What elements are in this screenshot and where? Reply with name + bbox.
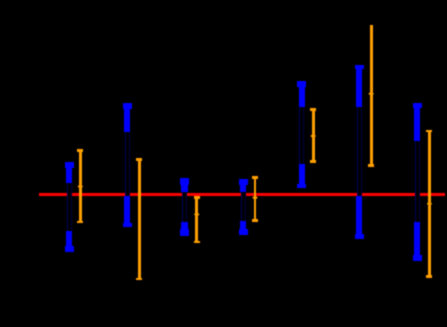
series-2 point 4: top cap [252, 176, 258, 179]
series-2 point 6: bottom cap [368, 164, 374, 167]
series-1 point 3: inner interval (black box, navy edges) [182, 192, 188, 222]
series-1 point 7: lower thick blue segment [414, 222, 420, 261]
series-2 point 5: center marker [310, 134, 316, 138]
series-2 point 6: center marker [368, 92, 374, 96]
series-2 point 1: orange error bar [79, 149, 82, 223]
series-2 point 1: top cap [77, 149, 83, 152]
series-2 point 3: orange error bar [195, 196, 198, 243]
series-1 point 4: inner interval (black box, navy edges) [241, 193, 247, 222]
series-1 point 6: upper thick blue segment [356, 65, 362, 107]
series-2 point 6: orange error bar [370, 25, 373, 167]
series-1 point 7: upper thick blue segment [414, 103, 420, 141]
series-1 point 5: inner interval (black box, navy edges) [299, 107, 305, 164]
series-2 point 5: top cap [310, 108, 316, 111]
series-1 point 2: bottom cap [123, 223, 132, 228]
series-1 point 5: lower thick blue segment [299, 164, 305, 188]
series-2 point 5: orange error bar [312, 108, 315, 163]
series-1 point 3: lower thick blue segment [181, 222, 187, 236]
series-2 point 5: bottom cap [310, 160, 316, 163]
series-1 point 6: bottom cap [355, 234, 364, 239]
series-2 point 4: bottom cap [252, 219, 258, 222]
series-1 point 3: upper thick blue segment [181, 178, 187, 191]
series-1 point 6: lower thick blue segment [356, 196, 362, 239]
series-2 point 7: center marker [427, 202, 433, 206]
series-1 point 1: inner interval (black box, navy edges) [67, 183, 73, 232]
series-2 point 7: orange error bar [428, 130, 431, 278]
series-1 point 4: top cap [239, 179, 248, 185]
series-1 point 5: upper thick blue segment [299, 81, 305, 107]
series-1 point 2: upper thick blue segment [124, 103, 130, 132]
series-1 point 1: bottom cap [65, 246, 74, 252]
series-1 point 2: lower thick blue segment [124, 196, 130, 227]
series-2 point 1: bottom cap [77, 221, 83, 224]
series-1 point 1: top cap [65, 162, 74, 168]
series-2 point 2: top cap [136, 158, 142, 161]
series-2 point 3: center marker [194, 212, 200, 216]
series-2 point 2: orange error bar [138, 158, 141, 280]
series-2 point 3: top cap [194, 196, 200, 199]
series-1 point 4: bottom cap [239, 229, 248, 235]
series-2 point 7: bottom cap [426, 275, 432, 278]
series-2 point 7: top cap [426, 130, 432, 133]
series-1 point 7: inner interval (black box, navy edges) [415, 141, 421, 222]
series-1 point 2: top cap [123, 103, 132, 109]
series-1 point 7: bottom cap [413, 255, 422, 261]
series-2 point 4: orange error bar [254, 176, 257, 222]
series-1 point 3: bottom cap [180, 229, 189, 235]
red baseline y=0 [39, 193, 445, 196]
series-1 point 6: top cap [355, 65, 364, 70]
series-1 point 4: upper thick blue segment [240, 179, 246, 193]
series-1 point 6: inner interval (black box, navy edges) [357, 107, 363, 196]
series-1 point 7: top cap [413, 103, 422, 108]
series-2 point 2: bottom cap [136, 278, 142, 281]
series-1 point 2: inner interval (black box, navy edges) [125, 132, 131, 196]
series-1 point 3: top cap [180, 178, 189, 184]
series-1 point 1: upper thick blue segment [66, 162, 72, 183]
series-2 point 1: center marker [77, 184, 83, 188]
series-2 point 4: center marker [252, 196, 258, 200]
series-1 point 4: lower thick blue segment [240, 221, 246, 235]
series-1 point 1: lower thick blue segment [66, 231, 72, 252]
series-2 point 3: bottom cap [194, 241, 200, 244]
series-1 point 5: top cap [297, 81, 306, 87]
series-1 point 5: bottom cap [297, 184, 306, 189]
